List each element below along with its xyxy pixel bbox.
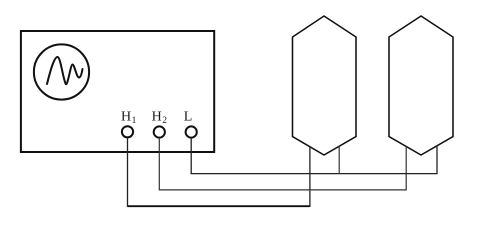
svg-text:2: 2 <box>162 116 167 126</box>
svg-text:H: H <box>121 110 131 125</box>
svg-text:H: H <box>152 110 162 125</box>
svg-text:L: L <box>184 110 193 125</box>
svg-text:1: 1 <box>132 116 137 126</box>
